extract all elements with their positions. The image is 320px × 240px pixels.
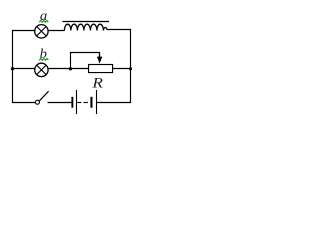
wire middle rail center	[48, 68, 88, 70]
svg-text:R: R	[91, 76, 103, 92]
inductor core bar	[62, 21, 109, 23]
junction dot left-middle	[11, 67, 14, 70]
squiggle under b	[39, 59, 48, 61]
inductor coil	[64, 24, 107, 30]
battery cell1 long thin plate	[76, 90, 77, 114]
battery cell2 long thin plate	[96, 90, 97, 114]
wire top rail mid	[48, 30, 64, 32]
rheostat tap horizontal	[70, 52, 100, 54]
battery cell1 short thick plate	[71, 97, 73, 108]
lamp A circle	[35, 25, 48, 38]
battery dash 2	[84, 102, 88, 104]
squiggle under a	[39, 21, 48, 23]
rheostat arrow head	[97, 57, 102, 64]
wire middle rail right	[113, 68, 131, 70]
lamp B cross	[37, 65, 46, 74]
wire top rail left	[12, 30, 35, 32]
junction dot rheostat tap	[69, 67, 72, 70]
switch lever	[39, 91, 49, 101]
wire right vertical	[130, 29, 132, 103]
resistor R box	[89, 65, 113, 73]
wire middle rail left	[12, 68, 35, 70]
wire bottom rail mid	[48, 102, 72, 104]
battery cell2 short thick plate	[90, 97, 92, 108]
switch pivot circle	[35, 100, 39, 104]
rheostat tap vertical	[70, 53, 72, 69]
wire bottom rail left	[12, 102, 35, 104]
wire top rail right	[107, 29, 131, 31]
rheostat arrow stem	[99, 53, 101, 58]
wire left vertical	[12, 30, 14, 103]
wire bottom rail right	[97, 102, 131, 104]
lamp A cross	[37, 27, 46, 36]
lamp B circle	[35, 63, 48, 76]
junction dot right-middle	[129, 67, 132, 70]
battery dash 1	[77, 102, 81, 104]
